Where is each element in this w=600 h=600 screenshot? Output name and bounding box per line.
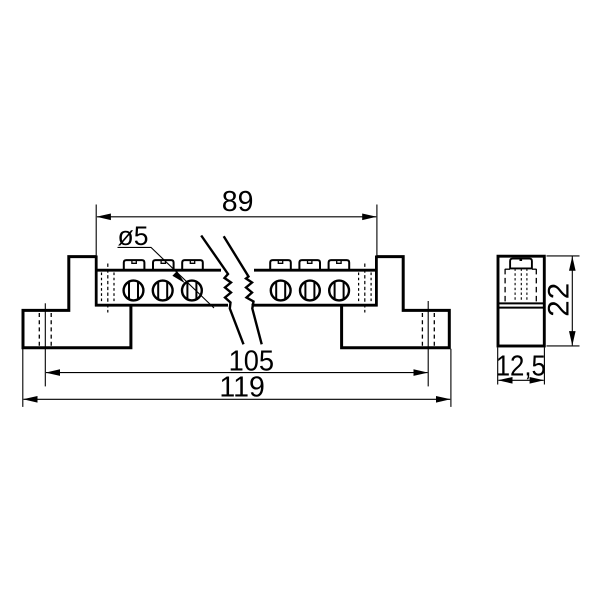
svg-text:22: 22 bbox=[542, 282, 575, 317]
dimension 12,5: left arrowhead bbox=[498, 377, 513, 384]
label ø5: leader line bbox=[118, 247, 215, 308]
dimension 105: left extension centerline bbox=[44, 303, 46, 386]
dimension 22: bottom extension line bbox=[547, 345, 580, 347]
front view: busbar body bottom edge (right segment) bbox=[252, 304, 378, 307]
dimension 105: right extension centerline bbox=[427, 301, 429, 386]
side view: seam double line upper bbox=[498, 302, 544, 304]
svg-text:ø5: ø5 bbox=[118, 221, 149, 251]
break line left bbox=[201, 236, 243, 345]
screws (6x): circle with slot chords bbox=[124, 281, 349, 301]
busbar left end centerline bbox=[107, 264, 109, 313]
dimension 119: dimension line bbox=[24, 398, 451, 400]
side view: terminal tab bbox=[510, 259, 532, 269]
dimension 89: dimension line bbox=[97, 216, 376, 218]
side view: seam double line lower bbox=[498, 307, 544, 309]
dimension 12,5: dimension line bbox=[498, 379, 543, 381]
dimension 22: bottom arrowhead bbox=[569, 331, 576, 346]
dimension 22: top extension line bbox=[547, 255, 580, 257]
side view: tab notch mark bbox=[520, 259, 523, 261]
svg-text:89: 89 bbox=[222, 186, 254, 218]
right foot hidden hole dashed lines bbox=[422, 313, 434, 347]
busbar left end hidden thread dashed lines bbox=[102, 273, 115, 304]
side view: hidden outline dashed (right) bbox=[535, 269, 537, 303]
svg-text:12,5: 12,5 bbox=[496, 349, 546, 382]
dimension 89: right arrowhead bbox=[362, 214, 377, 221]
dimension 22: top arrowhead bbox=[569, 256, 576, 271]
label ø5: leader arrowhead bbox=[172, 271, 184, 283]
dimension 12,5: left extension line bbox=[497, 348, 499, 385]
svg-text:119: 119 bbox=[219, 372, 264, 404]
side view: hidden outline dashed (top, left stub) bbox=[505, 268, 510, 270]
left bracket outline bbox=[23, 257, 131, 348]
dimension 89: left arrowhead bbox=[96, 214, 111, 221]
dimension 105: right arrowhead bbox=[414, 369, 429, 376]
busbar right end hidden thread dashed lines bbox=[359, 273, 372, 304]
dimension 12,5: right extension line bbox=[543, 348, 545, 385]
dimension 22: dimension line bbox=[571, 256, 573, 345]
dimension 119: right arrowhead bbox=[436, 396, 451, 403]
dimension 12,5: right arrowhead bbox=[530, 377, 545, 384]
busbar right end centerline bbox=[364, 264, 366, 313]
dimension 105: dimension line bbox=[46, 372, 428, 374]
front view: busbar body top edge (right segment) bbox=[254, 269, 378, 272]
front view: busbar body bottom edge (left segment) bbox=[95, 304, 228, 307]
dimension 89: extension lines bbox=[95, 205, 97, 257]
front view: busbar body top edge (left segment) bbox=[95, 269, 221, 272]
side view: hidden outline dashed (left) bbox=[504, 269, 506, 303]
dimension 105: left arrowhead bbox=[46, 369, 61, 376]
dimension 119: left arrowhead bbox=[23, 396, 38, 403]
dimension 119: right extension line bbox=[450, 349, 452, 407]
front view: busbar right end edge bbox=[375, 256, 378, 307]
side view: hidden outline dashed (top, right stub) bbox=[532, 268, 536, 270]
break line right bbox=[224, 236, 262, 344]
terminal tabs on top of busbar (6x) bbox=[124, 260, 349, 269]
front view: busbar left end edge bbox=[95, 256, 98, 307]
dimension 119: left extension line bbox=[22, 349, 24, 407]
right bracket outline bbox=[342, 257, 450, 348]
terminal tab notches bbox=[132, 260, 341, 263]
side view: hidden thread dashed lines bbox=[515, 269, 527, 303]
side view: outer body rectangle bbox=[498, 256, 544, 346]
left foot hidden hole dashed lines bbox=[39, 313, 51, 347]
